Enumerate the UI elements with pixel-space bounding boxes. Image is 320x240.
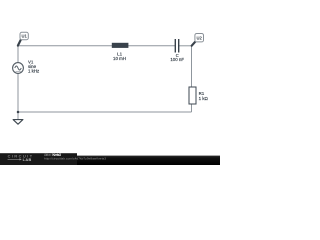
svg-text:1 kΩ: 1 kΩ — [199, 96, 209, 101]
logo LAB — [8, 158, 20, 160]
wire bottom horizontal — [18, 111, 192, 113]
watermark bar — [0, 156, 220, 165]
svg-text:U2: U2 — [197, 36, 203, 41]
wire right vertical above R1 — [191, 46, 193, 87]
wire ground stub — [17, 112, 19, 120]
svg-text:10 mH: 10 mH — [113, 56, 126, 61]
wire right vertical below R1 — [191, 104, 193, 112]
junction dot — [17, 111, 20, 114]
svg-text:http://circuitlab.com/c4d7kb7y: http://circuitlab.com/c4d7kb7y9e8aw/kret… — [44, 157, 106, 161]
resistor R1 — [189, 87, 196, 104]
ground — [13, 120, 23, 125]
svg-text:1 kHz: 1 kHz — [28, 69, 39, 74]
node label U2 — [192, 34, 204, 46]
svg-text:LAB: LAB — [23, 158, 32, 162]
wire left vertical below V1 — [17, 73, 19, 112]
node label U1 — [18, 32, 28, 45]
svg-text:U1: U1 — [21, 34, 27, 39]
watermark logo block — [0, 153, 77, 165]
capacitor C — [175, 39, 178, 53]
wire top horizontal from capacitor right plate to right corner — [179, 45, 192, 47]
svg-text:100 nF: 100 nF — [170, 57, 184, 62]
voltage source V1 — [13, 63, 24, 74]
wire top horizontal from V1 node to capacitor left plate — [18, 45, 175, 47]
wire left vertical above V1 — [17, 46, 19, 63]
inductor L1 — [112, 43, 129, 48]
